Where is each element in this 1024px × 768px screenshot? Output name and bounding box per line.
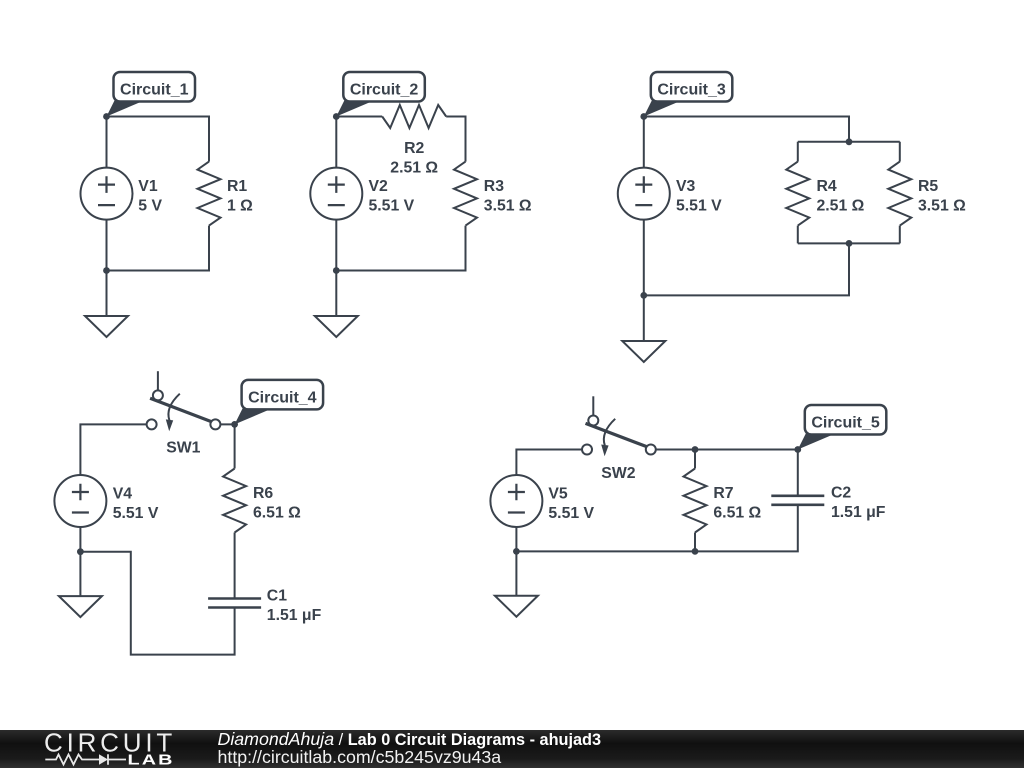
svg-text:5.51 V: 5.51 V	[369, 198, 415, 215]
svg-text:V3: V3	[676, 178, 696, 195]
svg-text:R5: R5	[918, 178, 938, 195]
svg-text:6.51 Ω: 6.51 Ω	[713, 504, 761, 521]
svg-text:R7: R7	[713, 485, 733, 502]
svg-text:V2: V2	[369, 178, 389, 195]
svg-text:R6: R6	[253, 485, 273, 502]
svg-text:5.51 V: 5.51 V	[548, 505, 594, 522]
svg-text:C1: C1	[267, 587, 287, 604]
svg-text:2.51 Ω: 2.51 Ω	[817, 198, 865, 215]
svg-text:V5: V5	[548, 485, 568, 502]
svg-text:5.51 V: 5.51 V	[676, 198, 722, 215]
svg-text:1.51 μF: 1.51 μF	[831, 504, 886, 521]
svg-text:SW1: SW1	[166, 440, 200, 457]
svg-text:LAB: LAB	[128, 751, 175, 768]
svg-text:V4: V4	[113, 485, 133, 502]
svg-text:R2: R2	[404, 140, 424, 157]
svg-text:2.51 Ω: 2.51 Ω	[390, 160, 438, 177]
svg-text:Circuit_1: Circuit_1	[120, 82, 189, 99]
svg-text:Circuit_3: Circuit_3	[657, 82, 726, 99]
svg-text:6.51 Ω: 6.51 Ω	[253, 504, 301, 521]
svg-text:1 Ω: 1 Ω	[227, 198, 253, 215]
svg-text:http://circuitlab.com/c5b245vz: http://circuitlab.com/c5b245vz9u43a	[218, 747, 502, 767]
svg-text:Circuit_5: Circuit_5	[811, 415, 880, 432]
svg-text:Circuit_2: Circuit_2	[350, 82, 419, 99]
svg-text:C2: C2	[831, 485, 851, 502]
svg-text:SW2: SW2	[601, 465, 635, 482]
svg-text:3.51 Ω: 3.51 Ω	[918, 198, 966, 215]
svg-text:5.51 V: 5.51 V	[113, 505, 159, 522]
svg-text:V1: V1	[138, 178, 158, 195]
svg-text:R4: R4	[817, 178, 837, 195]
svg-text:Circuit_4: Circuit_4	[248, 390, 317, 407]
svg-text:5 V: 5 V	[138, 198, 162, 215]
svg-text:R3: R3	[484, 178, 504, 195]
svg-text:R1: R1	[227, 178, 247, 195]
svg-text:3.51 Ω: 3.51 Ω	[484, 198, 532, 215]
svg-text:1.51 μF: 1.51 μF	[267, 607, 322, 624]
